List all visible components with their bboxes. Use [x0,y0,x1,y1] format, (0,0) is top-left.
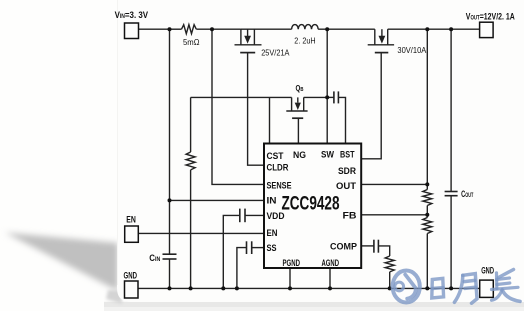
op-amp U1 ZCC9428 box [264,144,361,269]
wire: QB gate to NG pin [297,118,299,143]
wire: Q2 to VOUT node and terminal [388,28,480,30]
svg-text:SW: SW [321,150,334,160]
wire: Q1 gate to CLDR pin [248,53,264,166]
svg-text:FB: FB [343,211,358,221]
capacitor C VDD [223,209,264,289]
svg-text:SS: SS [267,243,277,253]
capacitor C BST [327,91,345,143]
wire: QB drain to SW node [304,96,328,98]
white schematic page [117,0,524,302]
svg-text:CLDR: CLDR [267,162,289,172]
wire: inductor to SW node [318,28,375,30]
watermark glyph YUE (moon) [454,274,477,304]
capacitor CIN [163,253,177,255]
watermark inner dot circle [395,282,404,291]
wire: SDR pin to Q2 gate [361,53,381,159]
capacitor C COMP [361,240,390,256]
svg-text:SENSE: SENSE [267,181,292,191]
wire: SW node down to SW pin [326,29,328,143]
node sense dot [210,27,214,31]
wire: AGND to ground [329,268,331,288]
watermark circle [393,271,420,303]
svg-text:SDR: SDR [338,166,356,176]
node QB-SW dot [325,95,329,99]
resistor R FB bottom [423,218,432,234]
node divider top dot [425,27,429,31]
svg-text:EN: EN [267,228,278,238]
watermark hook [405,275,416,299]
node SW dot [325,27,329,31]
resistor R COMP [385,256,394,288]
wire: CST pin up to QB source rail [269,97,271,143]
node IN rail dot [168,198,172,202]
wire: VIN terminal to input node [139,28,170,30]
svg-text:AGND: AGND [322,258,340,268]
ground dots [168,286,172,290]
svg-text:VIN=3. 3V: VIN=3. 3V [115,10,149,21]
svg-text:GND: GND [481,265,494,275]
divider line from VOUT node [426,29,428,189]
svg-text:2. 2uH: 2. 2uH [294,35,315,45]
transistor Q1 25V/21A [235,29,262,52]
watermark glyph RI (sun) [432,278,444,298]
wire: COUT line [450,29,452,191]
wire: IN pin to VIN rail [170,199,265,201]
wire: OUT pin to divider top [361,183,427,185]
svg-text:PGND: PGND [283,258,301,268]
wire: sense line down to SENSE pin [212,29,264,184]
terminal GND left [125,281,139,298]
svg-text:25V/21A: 25V/21A [261,49,290,58]
wire: resistor left lead [170,28,182,30]
resistor R 5mOhm [182,25,197,34]
IC pin labels [267,150,358,269]
node input dot [168,27,172,31]
watermark logo [393,270,520,304]
inductor L1 2.2uH [292,25,319,30]
svg-text:IN: IN [267,196,277,206]
svg-text:EN: EN [126,214,136,224]
terminal VOUT [480,22,494,37]
capacitor COUT [445,191,458,193]
node FB divider dot [425,213,429,217]
wire: FB pin to divider mid [361,214,427,216]
svg-text:5mΩ: 5mΩ [183,37,200,47]
terminal VIN [125,23,139,39]
wire: resistor to sense node [196,28,241,30]
svg-text:COMP: COMP [330,242,357,252]
svg-text:30V/10A: 30V/10A [397,46,427,55]
terminal EN [125,226,139,242]
transistor Q2 30V/10A [368,29,394,52]
wire: EN terminal to EN pin [138,232,264,234]
terminal GND right [480,280,494,297]
wire: PGND to ground [289,268,291,288]
wire: QB source rail [191,96,292,98]
svg-text:GND: GND [124,271,138,281]
resistor R pulldown [186,97,195,288]
node OUT divider dot [425,182,429,186]
svg-text:NG: NG [293,150,306,160]
page curl shadow bottom-left [5,233,118,292]
svg-text:CST: CST [267,151,284,161]
svg-text:ZCC9428: ZCC9428 [282,194,340,215]
wire: VIN rail down (node A) [169,29,171,254]
watermark glyph CHANG (long) [492,270,521,302]
wire: top rail across Q1 [241,28,292,30]
svg-text:OUT: OUT [336,181,357,191]
svg-text:BST: BST [340,150,355,160]
resistor R FB top [423,190,432,206]
bottom gray strip under page [104,302,524,311]
ground rail [138,287,480,289]
capacitor C SS [237,241,264,288]
transistor QB [286,97,307,118]
node COUT top dot [449,27,453,31]
